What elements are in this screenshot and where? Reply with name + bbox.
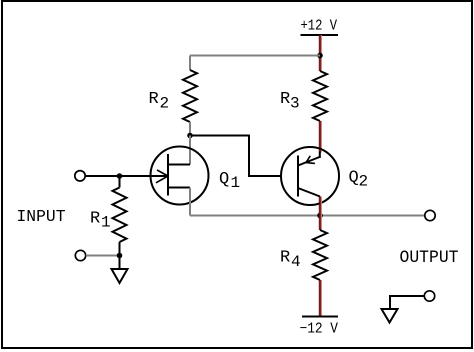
wire R1 top lead — [119, 176, 121, 188]
+12 V rail label — [301, 18, 338, 35]
wire R3 bottom to Q2 emitter (red) — [319, 121, 321, 153]
node junction at +12V / R2 feed — [317, 53, 323, 59]
label OUTPUT — [400, 248, 459, 268]
node junction R2 / Q1 drain / Q2 base — [187, 133, 193, 139]
wire output jack to ground — [390, 296, 424, 309]
input terminal bottom (open circle) — [75, 250, 85, 260]
wire Q1 source down (gray) — [189, 188, 191, 216]
wire Q1 drain vertical (gray) — [189, 136, 191, 165]
svg-text:2: 2 — [160, 95, 170, 113]
wire ground stub — [119, 256, 121, 270]
node junction input bottom / ground — [117, 253, 123, 259]
node junction input / R1 top — [117, 173, 123, 179]
svg-text:2: 2 — [359, 173, 369, 191]
-12 V rail label — [300, 321, 339, 337]
wire input bottom to R1 node (gray) — [86, 255, 120, 257]
svg-text:3: 3 — [290, 95, 300, 113]
transistor Q2 (PNP) — [281, 147, 339, 205]
svg-text:R: R — [280, 90, 290, 109]
resistor R4 — [313, 230, 327, 280]
resistor R2 — [183, 70, 197, 122]
svg-text:−12 V: −12 V — [300, 321, 339, 337]
wire output line (gray horizontal) — [190, 215, 425, 217]
wire input top to Q1 gate (black) — [85, 175, 151, 177]
label R2 — [149, 90, 170, 113]
transistor Q1 (JFET) — [151, 147, 209, 205]
svg-text:R: R — [90, 210, 100, 229]
label R1 — [90, 210, 111, 232]
label R4 — [280, 249, 301, 271]
wire R4 bottom to -12V bar (red) — [319, 280, 321, 316]
svg-text:OUTPUT: OUTPUT — [400, 248, 459, 268]
svg-text:R: R — [280, 249, 290, 268]
wire +12V node to R2 top (gray horizontal) — [190, 55, 320, 57]
wire R2 bottom lead to node (gray) — [189, 122, 191, 136]
svg-text:1: 1 — [231, 174, 241, 192]
svg-text:R: R — [149, 90, 159, 109]
svg-text:+12 V: +12 V — [301, 18, 338, 35]
+12 V rail bar — [301, 34, 339, 36]
resistor R3 — [313, 71, 327, 121]
label Q2 — [349, 168, 369, 190]
resistor R1 — [113, 188, 127, 243]
wire R2 top lead (gray vertical) — [189, 56, 191, 71]
svg-text:INPUT: INPUT — [17, 208, 66, 227]
input terminal top (open circle) — [75, 171, 85, 181]
wire +12V bar to R3 top (red) — [319, 35, 321, 71]
node junction Q2 collector / R4 / output — [317, 213, 323, 219]
svg-text:Q: Q — [349, 168, 359, 187]
svg-text:Q: Q — [219, 170, 229, 189]
wire R1 bottom lead — [119, 242, 121, 256]
wire node to Q2 base (black, three segments) — [190, 136, 281, 177]
svg-text:1: 1 — [101, 214, 111, 232]
label R3 — [280, 90, 300, 113]
ground (input) — [112, 269, 128, 283]
output terminal (open circle) — [425, 210, 435, 220]
svg-text:4: 4 — [291, 253, 301, 271]
ground (output jack) — [382, 309, 398, 323]
label INPUT — [17, 208, 66, 227]
label Q1 — [219, 170, 240, 192]
-12 V rail bar — [302, 316, 338, 318]
wire Q2 collector to R4 (red) — [319, 197, 321, 231]
output jack terminal (open circle) — [424, 291, 434, 301]
